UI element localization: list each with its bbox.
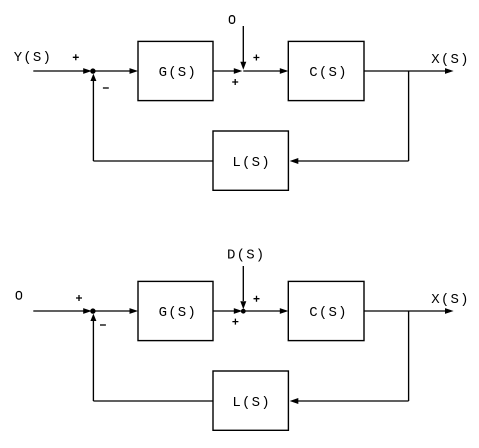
wire disturbance 0 down to junction J2 <box>242 26 244 63</box>
block L2 L(S) <box>213 371 288 430</box>
wire C2 to output X(S) <box>364 310 448 312</box>
wire input 0 to junction J3 <box>33 310 86 312</box>
block G1 G(S) <box>138 41 213 100</box>
svg-text:D(S): D(S) <box>227 247 265 263</box>
plus sign above line at junction J2 <box>253 55 259 61</box>
wire L2 back to junction J3 vertical <box>92 316 94 401</box>
wire L2 back to junction J3 horizontal <box>93 400 213 402</box>
wire junction J1 to block G(S) <box>93 70 134 72</box>
wire feedback into block L(S) <box>295 160 409 162</box>
svg-text:C(S): C(S) <box>309 305 347 321</box>
wire junction J4 to block C2 <box>243 310 283 312</box>
block C2 C(S) <box>288 281 364 340</box>
node J1 summing junction dot <box>90 68 95 73</box>
minus sign at junction J3 <box>100 324 106 326</box>
svg-text:G(S): G(S) <box>159 305 197 321</box>
wire G(S) to disturbance junction J2 <box>213 70 238 72</box>
plus sign above line at junction J4 <box>254 296 260 302</box>
plus sign at input summing junction J3 <box>76 295 82 301</box>
plus sign below line at junction J4 <box>232 319 238 325</box>
wire L(S) back to junction J1 vertical <box>92 76 94 161</box>
wire branch down from output <box>408 71 410 161</box>
plus sign below line at junction J2 <box>232 79 238 85</box>
svg-text:Y(S): Y(S) <box>14 50 52 66</box>
label 0 disturbance input <box>229 16 234 24</box>
wire C(S) to output X(S) <box>364 70 448 72</box>
svg-text:L(S): L(S) <box>232 155 270 171</box>
svg-text:L(S): L(S) <box>232 395 270 411</box>
minus sign at junction J1 <box>103 87 109 89</box>
wire G2 to disturbance junction J4 <box>213 310 238 312</box>
wire disturbance D(S) down to junction J4 <box>242 266 244 301</box>
wire feedback into block L2 <box>295 400 409 402</box>
svg-text:X(S): X(S) <box>431 52 469 68</box>
wire branch down from output bottom <box>408 311 410 401</box>
svg-text:G(S): G(S) <box>159 65 197 81</box>
wire junction J2 to block C(S) <box>243 70 283 72</box>
block L1 L(S) <box>213 131 288 190</box>
block C1 C(S) <box>288 41 364 100</box>
label 0 input signal <box>16 292 21 300</box>
plus sign at input summing junction J1 <box>73 54 79 60</box>
wire input Y(S) to junction J1 <box>33 70 86 72</box>
wire junction J3 to block G2 <box>93 310 134 312</box>
node J3 summing junction dot <box>90 308 95 313</box>
wire L(S) back to junction J1 horizontal <box>93 160 213 162</box>
node J4 summing junction dot <box>241 309 246 314</box>
block G2 G(S) <box>138 281 213 340</box>
svg-text:X(S): X(S) <box>431 292 469 308</box>
svg-text:C(S): C(S) <box>309 65 347 81</box>
